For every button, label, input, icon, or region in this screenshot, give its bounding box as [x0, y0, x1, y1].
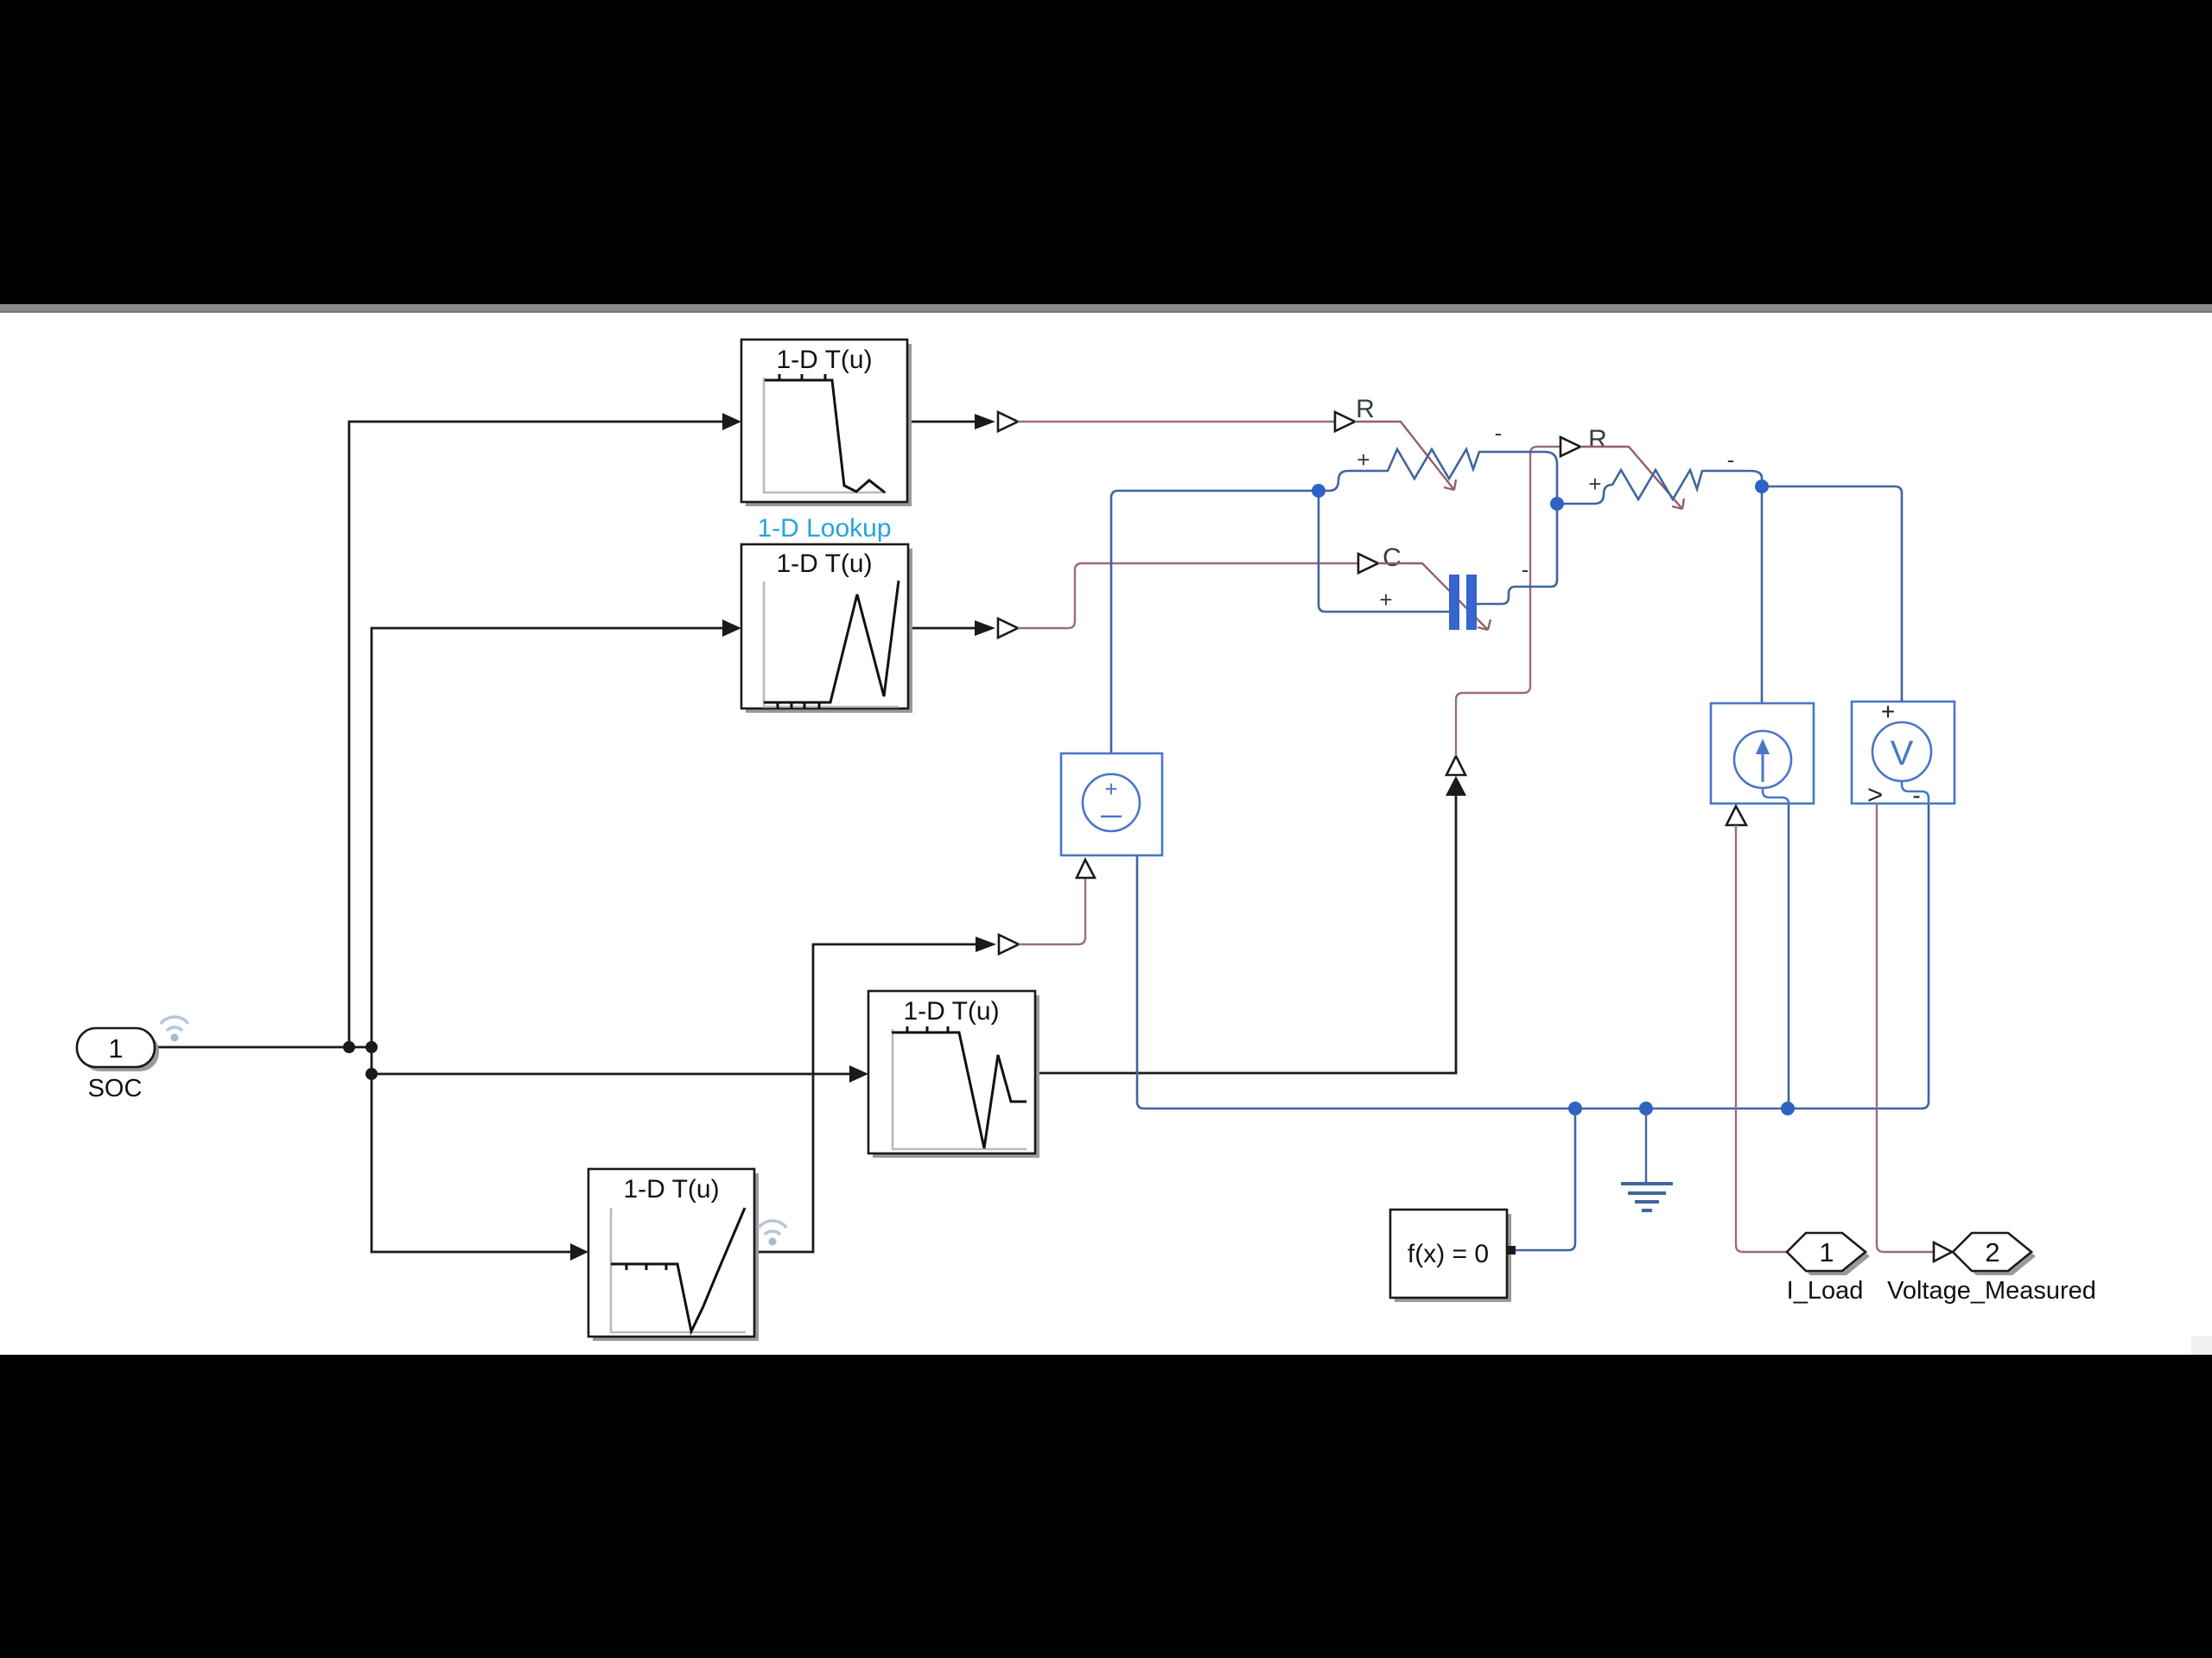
PS out port triangle [1726, 806, 1746, 825]
svg-text:-: - [1912, 782, 1920, 809]
control port triangle [1077, 860, 1095, 878]
svg-text:I_Load: I_Load [1787, 1277, 1864, 1305]
wire block1 output [907, 421, 975, 423]
white diagram canvas [0, 313, 2212, 1355]
wire solver to bus [1516, 1109, 1575, 1250]
svg-text:+: + [1881, 698, 1895, 725]
svg-text:-: - [1522, 556, 1529, 582]
svg-text:>: > [1867, 779, 1883, 810]
svg-text:R: R [1356, 395, 1375, 423]
bottom wire to ground bus [1137, 855, 1144, 1109]
svg-text:R: R [1588, 425, 1607, 454]
node dot A [1312, 484, 1325, 498]
plates [1449, 575, 1459, 630]
svg-text:+: + [1357, 447, 1370, 473]
scrollbar corner bottom right [2191, 1336, 2212, 1355]
control lead + diagonal arrow [1355, 422, 1456, 490]
svg-text:SOC: SOC [88, 1075, 143, 1102]
svg-text:+: + [1104, 776, 1117, 802]
bus node dot solver [1568, 1102, 1582, 1115]
svg-text:-: - [1727, 447, 1735, 473]
svg-text:1-D T(u): 1-D T(u) [776, 346, 872, 374]
arrowhead into block4 [570, 1243, 588, 1261]
svg-text:1-D T(u): 1-D T(u) [776, 549, 872, 578]
node junction dot A [343, 1041, 355, 1053]
svg-text:1: 1 [108, 1033, 123, 1064]
inner bottom lead [1902, 781, 1929, 804]
port triangle R [1335, 412, 1355, 431]
wire junction up to lookup R1 input [372, 628, 722, 1074]
arrowhead into block1 [722, 413, 741, 430]
arrowhead into block3 [849, 1065, 868, 1083]
wire junction to lookup Em input [372, 1073, 849, 1076]
top black bar [0, 0, 2212, 304]
svg-text:+: + [1379, 587, 1392, 613]
svg-text:2: 2 [1985, 1237, 1999, 1267]
wire node C to voltmeter top [1762, 486, 1902, 723]
zigzag [1557, 470, 1762, 504]
PS wire to VS control [1019, 878, 1085, 944]
node dot C [1755, 480, 1769, 493]
port triangle R [1560, 437, 1580, 456]
wire block3 output to up-converter [1035, 795, 1456, 1073]
svg-text:1-D T(u): 1-D T(u) [623, 1175, 719, 1204]
svg-text:1-D Lookup: 1-D Lookup [757, 514, 891, 543]
svg-text:V: V [1891, 734, 1914, 772]
zigzag [1319, 449, 1557, 504]
PS wire to R0 control [1018, 421, 1335, 422]
svg-text:C: C [1382, 543, 1402, 572]
wire junction down to lookup C1 input [372, 1074, 570, 1252]
wire current sensor bottom to bus [1788, 804, 1790, 1109]
control lead + diagonal arrow [1580, 447, 1684, 509]
svg-text:-: - [1495, 420, 1503, 446]
wifi logging badge at block4 output [759, 1221, 786, 1245]
wire SOC to junction [155, 1046, 372, 1049]
svg-text:f(x) = 0: f(x) = 0 [1408, 1240, 1489, 1268]
svg-text:+: + [1588, 471, 1601, 497]
gray divider bar [0, 304, 2212, 313]
bottom black bar [0, 1355, 2212, 1658]
wire node C to current sensor top [1761, 486, 1764, 732]
wire junction up to lookup R0 input [349, 422, 722, 1047]
svg-text:Voltage_Measured: Voltage_Measured [1887, 1277, 2096, 1305]
node junction dot B [365, 1041, 378, 1053]
PS wire to C1 control [1018, 563, 1358, 628]
wire block4 output to VS converter [754, 944, 976, 1252]
node dot B [1550, 497, 1564, 511]
wire block2 output [908, 627, 975, 630]
port triangle C [1358, 554, 1378, 573]
svg-text:1: 1 [1819, 1237, 1834, 1267]
wifi logging badge at SOC [161, 1017, 188, 1042]
bus node dot ground [1639, 1102, 1653, 1115]
PS wire to R1 control [1456, 447, 1560, 756]
control lead + diagonal arrow [1378, 563, 1491, 630]
bus node dot sensor [1781, 1102, 1795, 1115]
arrowhead into block2 [722, 619, 741, 637]
node junction dot C [365, 1068, 378, 1080]
wire node A to voltage source top [1111, 491, 1319, 753]
leads [1319, 491, 1449, 612]
svg-text:1-D T(u): 1-D T(u) [903, 997, 999, 1026]
